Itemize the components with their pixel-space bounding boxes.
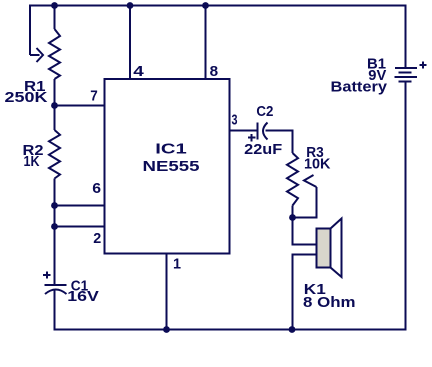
svg-text:2: 2 [93,231,101,247]
svg-text:1: 1 [173,257,181,273]
svg-text:10K: 10K [304,157,331,173]
svg-text:1K: 1K [24,154,40,170]
svg-text:6: 6 [92,181,101,197]
svg-text:3: 3 [232,113,238,129]
svg-text:7: 7 [90,89,98,105]
svg-text:Battery: Battery [331,80,388,96]
svg-text:16V: 16V [67,289,99,305]
svg-text:NE555: NE555 [143,159,200,175]
svg-text:8: 8 [210,64,219,80]
svg-text:250K: 250K [5,90,49,106]
svg-text:8 Ohm: 8 Ohm [303,295,356,311]
svg-text:22uF: 22uF [244,142,282,158]
svg-text:IC1: IC1 [155,141,187,157]
svg-text:4: 4 [133,64,144,80]
svg-text:C2: C2 [256,104,273,120]
